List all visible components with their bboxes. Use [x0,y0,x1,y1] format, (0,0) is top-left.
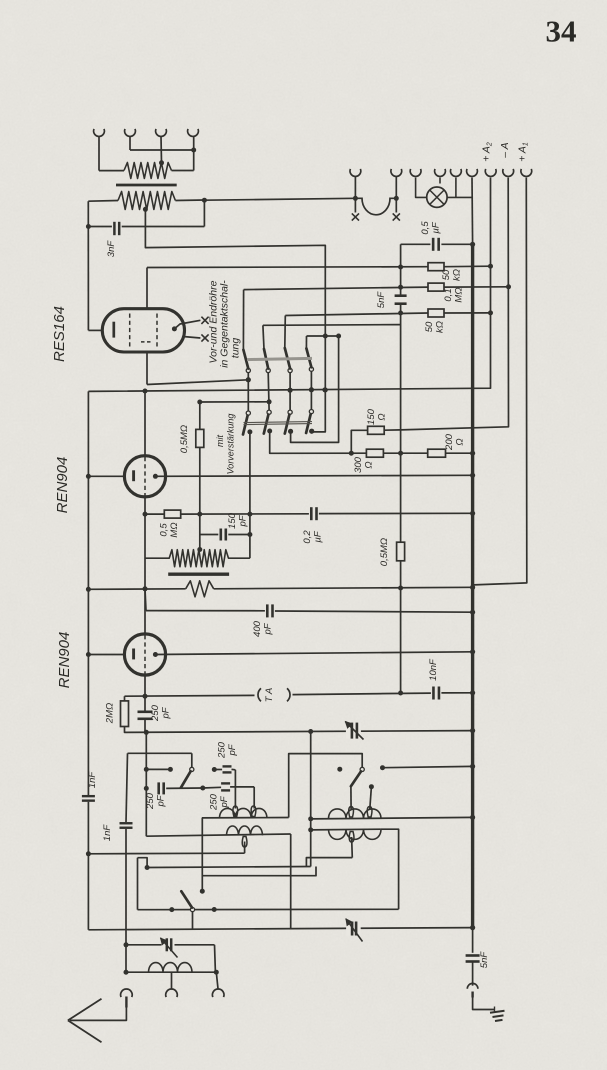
svg-text:5nF: 5nF [479,951,490,969]
svg-text:0,5MΩ: 0,5MΩ [379,538,390,566]
svg-text:50kΩ: 50kΩ [424,321,446,333]
svg-text:0,5MΩ: 0,5MΩ [159,522,181,537]
svg-text:0,5µF: 0,5µF [420,221,442,235]
svg-text:10nF: 10nF [428,658,439,681]
svg-text:0,2µF: 0,2µF [302,530,324,544]
svg-text:REN904: REN904 [54,457,71,514]
svg-text:1nF: 1nF [102,824,113,842]
svg-text:mit: mit [215,435,225,447]
svg-text:1nF: 1nF [87,771,98,789]
svg-text:– A: – A [499,142,511,158]
svg-text:tung: tung [230,338,242,359]
svg-text:REN904: REN904 [56,632,73,689]
svg-text:0,1MΩ: 0,1MΩ [443,287,465,302]
svg-text:Vorverstärkung: Vorverstärkung [226,414,236,475]
svg-text:2MΩ: 2MΩ [105,703,116,724]
svg-text:3nF: 3nF [106,240,117,258]
svg-text:0,5MΩ: 0,5MΩ [179,425,190,453]
svg-text:34: 34 [546,14,577,49]
svg-text:RES164: RES164 [51,306,68,362]
svg-text:5nF: 5nF [376,291,387,309]
svg-text:50kΩ: 50kΩ [441,269,463,281]
svg-text:T A: T A [264,688,275,702]
